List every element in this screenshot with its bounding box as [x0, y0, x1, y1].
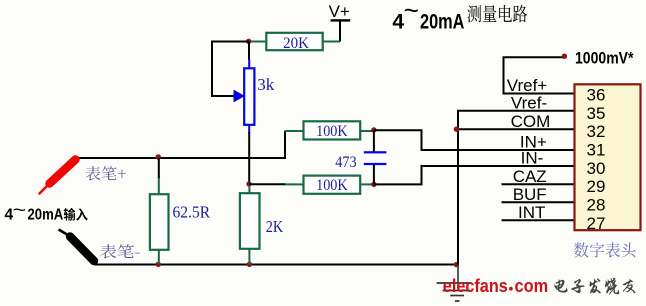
- svg-text:com: com: [515, 275, 549, 296]
- svg-text:~: ~: [13, 201, 27, 222]
- red test probe 表笔+: [40, 160, 76, 194]
- wire 2K bottom lead: [248, 249, 250, 264]
- wire INT stub: [502, 219, 575, 221]
- wire cap bottom connection: [373, 165, 375, 184]
- wire pot top lead: [248, 42, 250, 61]
- node cap bottom: [371, 182, 376, 187]
- svg-text:20mA: 20mA: [420, 11, 464, 34]
- svg-text:3k: 3k: [257, 75, 275, 94]
- resistor 2K: [240, 193, 284, 249]
- svg-text:473: 473: [335, 154, 356, 171]
- resistor R 100K (top): [304, 121, 361, 140]
- svg-text:36: 36: [587, 85, 606, 104]
- wire 100K top right lead: [361, 130, 372, 132]
- potentiometer RP 3k wiper arrow: [234, 90, 246, 103]
- svg-text:1000mV*: 1000mV*: [575, 48, 634, 67]
- node rail / 62.5R: [156, 154, 161, 159]
- svg-text:27: 27: [587, 214, 606, 233]
- wire cap bottom node to IN-: [374, 166, 575, 184]
- wire 62.5R top lead: [158, 158, 160, 179]
- svg-text:100K: 100K: [316, 123, 348, 140]
- node rail / 62.5R bottom: [156, 262, 161, 267]
- label 数字表头: [574, 242, 636, 257]
- wire CAZ stub: [502, 183, 575, 185]
- svg-text:Vref-: Vref-: [511, 93, 547, 112]
- svg-text:BUF: BUF: [513, 185, 547, 204]
- wire 100K bottom right lead: [361, 183, 372, 185]
- svg-text:CAZ: CAZ: [513, 167, 547, 186]
- svg-text:INT: INT: [518, 203, 545, 222]
- title text 4~20mA 测量电路: [392, 0, 527, 34]
- svg-text:31: 31: [587, 141, 606, 160]
- svg-text:30: 30: [587, 159, 606, 178]
- watermark 电子发烧友: [554, 278, 635, 295]
- node rail / 2K bottom: [247, 262, 252, 267]
- svg-text:V+: V+: [329, 2, 350, 21]
- svg-text:29: 29: [587, 177, 606, 196]
- wire 2K top lead: [248, 184, 250, 194]
- node: 20K / pot junction: [246, 39, 251, 44]
- wire 100K bottom left lead: [249, 183, 286, 185]
- node COM junction: [454, 127, 459, 132]
- wire 62.5R bottom lead: [158, 250, 160, 264]
- resistor 62.5R: [150, 194, 211, 250]
- node cap top: [371, 127, 376, 132]
- svg-text:20mA: 20mA: [28, 206, 64, 223]
- wire V+ to 20K: [339, 21, 341, 42]
- wire pot wiper loop: [212, 42, 249, 97]
- svg-text:elecfans: elecfans: [443, 275, 508, 296]
- node rail end / ground: [454, 262, 459, 267]
- resistor 20K: [266, 33, 322, 52]
- label 4~20mA输入: [5, 201, 88, 224]
- svg-text:32: 32: [587, 122, 606, 141]
- label 表笔+: [85, 166, 126, 181]
- svg-text:35: 35: [587, 104, 606, 123]
- svg-text:~: ~: [404, 0, 420, 25]
- wire BUF stub: [502, 201, 575, 203]
- IC U1 digital meter head body: [575, 84, 641, 230]
- svg-text:20K: 20K: [283, 35, 309, 52]
- svg-text:100K: 100K: [316, 177, 348, 194]
- svg-text:62.5R: 62.5R: [173, 202, 211, 221]
- watermark elecfans.com logo: [443, 275, 548, 296]
- wire Vref+ to 1000mV* terminal: [504, 57, 575, 93]
- node terminal dot: [562, 54, 567, 59]
- wire 20K left lead: [249, 41, 266, 43]
- node pot bottom / 2K / 100K: [246, 181, 251, 186]
- svg-text:2K: 2K: [266, 217, 284, 236]
- wire pot bottom lead: [248, 125, 250, 133]
- resistor R 100K (bottom): [304, 176, 361, 195]
- ground symbol: [437, 265, 471, 302]
- wire cap top connection: [373, 130, 375, 151]
- svg-text:28: 28: [587, 196, 606, 215]
- wire bottom rail: [94, 264, 458, 266]
- power terminal V+: [329, 2, 351, 22]
- wire Vref- line and down to bottom rail: [458, 111, 575, 265]
- wire top rail from red probe: [76, 131, 285, 158]
- svg-text:COM: COM: [511, 112, 551, 131]
- black test probe 表笔-: [60, 230, 95, 261]
- label 表笔-: [100, 244, 140, 258]
- wire COM line: [458, 128, 575, 130]
- wire cap top node to IN+: [374, 130, 575, 150]
- capacitor C 473: [364, 151, 387, 165]
- svg-text:IN-: IN-: [521, 149, 544, 168]
- potentiometer RP 3k body: [244, 68, 254, 125]
